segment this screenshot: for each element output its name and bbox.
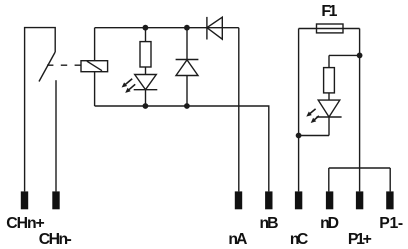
svg-text:CHn+: CHn+ bbox=[6, 215, 45, 232]
svg-text:P1+: P1+ bbox=[348, 231, 372, 248]
svg-text:F1: F1 bbox=[321, 3, 337, 20]
svg-text:nD: nD bbox=[320, 215, 339, 232]
svg-text:P1-: P1- bbox=[379, 215, 403, 232]
svg-text:nA: nA bbox=[228, 231, 247, 248]
svg-text:CHn-: CHn- bbox=[39, 231, 72, 248]
svg-text:nB: nB bbox=[260, 215, 279, 232]
svg-text:nC: nC bbox=[290, 231, 309, 248]
